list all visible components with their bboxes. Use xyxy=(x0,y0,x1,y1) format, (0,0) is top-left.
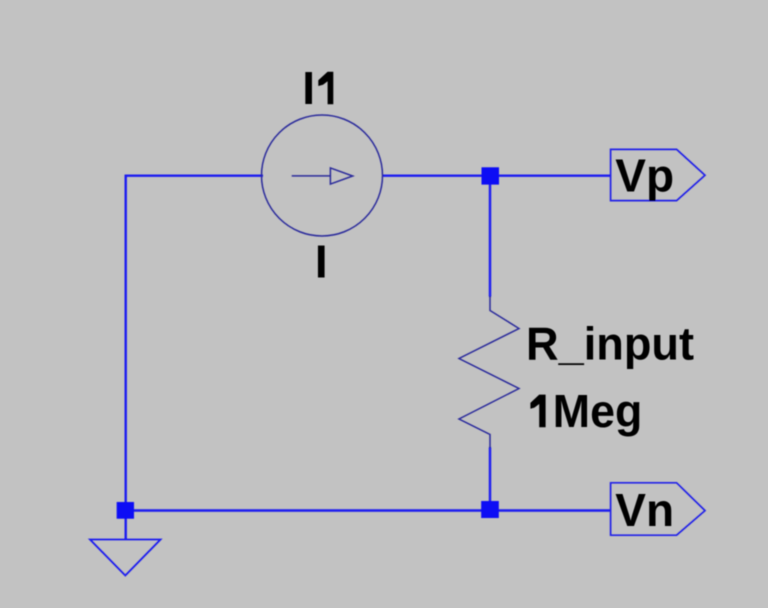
value label 1Meg digit 1 xyxy=(530,395,545,428)
svg-text:R_input: R_input xyxy=(526,317,694,369)
junction node bottom right xyxy=(481,501,499,518)
wire right vertical upper xyxy=(489,176,491,297)
svg-text:Meg: Meg xyxy=(553,385,643,437)
current source I1 xyxy=(262,115,383,236)
svg-text:I: I xyxy=(302,62,315,114)
junction node top right xyxy=(482,167,500,184)
wire ground stub xyxy=(124,511,126,540)
wire top-left horizontal xyxy=(125,174,263,176)
junction node bottom left xyxy=(117,502,134,519)
ground xyxy=(90,540,161,576)
wire top-right horizontal xyxy=(383,174,611,176)
svg-text:Vn: Vn xyxy=(615,484,674,536)
wire right vertical lower xyxy=(489,447,491,511)
resistor R_input xyxy=(459,296,519,448)
wire left vertical xyxy=(124,175,126,511)
label I1 digit 1 xyxy=(318,72,333,104)
svg-text:Vp: Vp xyxy=(615,150,674,202)
wire bottom horizontal xyxy=(126,509,611,511)
svg-text:I: I xyxy=(315,236,328,288)
port Vn xyxy=(611,483,705,535)
port Vp xyxy=(611,149,705,200)
